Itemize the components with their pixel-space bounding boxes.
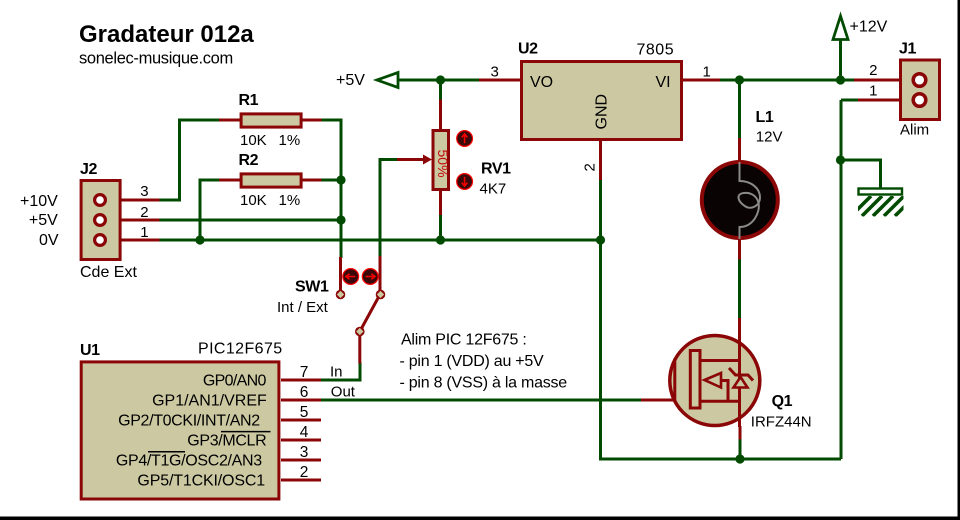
svg-text:VI: VI <box>656 74 671 91</box>
wire 0V rail J2 pin1 <box>159 239 602 242</box>
wire R2 right stub <box>300 179 322 182</box>
wire J2 pin2 stub <box>104 219 160 222</box>
svg-text:VO: VO <box>530 74 553 91</box>
wire SW1 left stub <box>339 257 342 291</box>
svg-text:R2: R2 <box>239 152 259 169</box>
RV1 wiper arrowhead <box>423 155 432 165</box>
svg-text:SW1: SW1 <box>295 279 329 296</box>
node Q1 source junction <box>735 454 744 463</box>
wire SW1 pole stub <box>358 334 361 364</box>
wire J2 pin3 to R1 left <box>159 120 221 200</box>
wire +12V arrow drop <box>839 39 842 80</box>
resistor R1 <box>239 92 302 149</box>
svg-text:GP4/T1G/OSC2/AN3: GP4/T1G/OSC2/AN3 <box>116 452 262 469</box>
svg-text:+5V: +5V <box>336 72 365 89</box>
node RV1 bottom junction <box>436 235 445 244</box>
wire R1 right stub <box>300 119 322 122</box>
svg-text:Cde Ext: Cde Ext <box>80 264 137 281</box>
wire Q1 drain stub <box>738 318 741 336</box>
wire RV1 bottom stub <box>439 189 442 215</box>
svg-text:0V: 0V <box>39 232 59 249</box>
node +5V junction <box>436 75 445 84</box>
wire +5V rail J2 pin2 <box>159 219 342 222</box>
svg-text:IRFZ44N: IRFZ44N <box>751 413 812 430</box>
wire L1 top stub <box>738 138 741 163</box>
svg-text:4: 4 <box>300 424 309 441</box>
wire U1 pin6 stub <box>281 399 321 402</box>
wire U1 pin5 stub <box>281 419 321 422</box>
resistor R2 <box>239 152 302 209</box>
svg-text:10K: 10K <box>240 192 267 209</box>
svg-text:Q1: Q1 <box>772 393 793 410</box>
svg-text:10K: 10K <box>240 132 267 149</box>
connector J2 <box>20 161 149 281</box>
svg-text:+5V: +5V <box>29 212 58 229</box>
svg-text:1%: 1% <box>279 132 301 149</box>
wire RV1 top stub <box>439 100 442 132</box>
svg-text:Gradateur 012a: Gradateur 012a <box>79 21 254 48</box>
svg-text:RV1: RV1 <box>481 161 511 178</box>
wire U1 pin3 stub <box>281 459 321 462</box>
svg-text:sonelec-musique.com: sonelec-musique.com <box>79 50 233 68</box>
svg-text:GND: GND <box>594 94 611 130</box>
potentiometer RV1 <box>433 131 511 198</box>
ic U1 <box>80 341 356 500</box>
svg-text:Int / Ext: Int / Ext <box>277 299 329 316</box>
wire R2 right link <box>320 179 341 182</box>
svg-text:6: 6 <box>300 384 309 401</box>
svg-text:4K7: 4K7 <box>480 180 507 197</box>
wire U2 pin2 lower <box>599 179 602 240</box>
wire Out net <box>320 399 642 402</box>
svg-text:50%: 50% <box>435 150 451 178</box>
svg-text:J1: J1 <box>899 41 916 58</box>
wire RV1 wiper riser <box>380 160 398 259</box>
ground <box>851 189 915 217</box>
wire R2 left stub <box>219 179 242 182</box>
switch SW1 <box>277 269 385 337</box>
wire Q1 source stub <box>739 426 742 440</box>
node R1-R2 junction <box>336 175 345 184</box>
lamp L1 <box>702 109 783 239</box>
wire RV1 wiper arrow shaft <box>397 158 425 161</box>
wire L1 bottom to Q1 drain <box>738 258 741 319</box>
wire U2 pin1 stub <box>681 79 720 82</box>
wire Q1 gate stub <box>641 399 676 402</box>
wire RV1 bottom <box>439 214 442 240</box>
svg-text:Out: Out <box>331 384 356 401</box>
wire right riser x841 <box>840 100 843 459</box>
wire R1 left stub <box>219 119 242 122</box>
svg-text:PIC12F675: PIC12F675 <box>198 341 283 358</box>
svg-text:U2: U2 <box>518 41 538 58</box>
title <box>79 21 254 48</box>
svg-text:Alim PIC 12F675 :: Alim PIC 12F675 : <box>401 332 527 349</box>
svg-text:12V: 12V <box>756 129 783 146</box>
wire +5V arrow line <box>398 79 481 82</box>
svg-text:GP2/T0CKI/INT/AN2: GP2/T0CKI/INT/AN2 <box>118 412 260 429</box>
svg-text:GP1/AN1/VREF: GP1/AN1/VREF <box>152 392 267 409</box>
svg-text:GP0/AN0: GP0/AN0 <box>203 372 267 389</box>
wire U1 pin7 stub <box>281 379 321 382</box>
node +5V rail junction <box>336 215 345 224</box>
svg-text:U1: U1 <box>80 342 100 359</box>
svg-text:3: 3 <box>300 444 309 461</box>
wire J1 pin1 link <box>841 99 860 102</box>
power +12V arrow <box>833 16 888 40</box>
border bottom <box>0 517 960 520</box>
svg-text:5: 5 <box>300 404 309 421</box>
svg-text:1: 1 <box>703 64 711 81</box>
svg-text:2: 2 <box>869 62 877 79</box>
wire ground branch <box>841 160 881 190</box>
note text <box>400 332 568 392</box>
regulator U2 <box>491 41 711 172</box>
svg-text:7: 7 <box>300 364 309 381</box>
wire J2 pin1 riser to R2 left <box>200 180 221 240</box>
node J2 pin1 junction <box>195 235 204 244</box>
wire SW1 blade <box>360 294 381 332</box>
wire J2 pin1 stub <box>104 239 160 242</box>
svg-text:3: 3 <box>491 64 499 81</box>
wire +12V rail y80 <box>719 79 856 82</box>
svg-text:2: 2 <box>582 163 599 171</box>
svg-text:In: In <box>330 363 343 380</box>
svg-text:- pin 1 (VDD) au +5V: - pin 1 (VDD) au +5V <box>400 353 545 370</box>
svg-text:+10V: +10V <box>20 193 58 210</box>
wire L1 bottom stub <box>738 238 741 260</box>
border right <box>958 0 960 520</box>
wire x600 riser and bottom rail <box>601 240 842 459</box>
svg-text:1%: 1% <box>279 192 301 209</box>
wire J1 pin1 stub <box>858 99 913 102</box>
svg-text:2: 2 <box>140 204 148 221</box>
svg-text:- pin 8 (VSS) à la masse: - pin 8 (VSS) à la masse <box>400 375 568 392</box>
svg-text:Alim: Alim <box>900 122 929 139</box>
node +12V junction <box>836 75 845 84</box>
svg-text:+12V: +12V <box>850 19 888 36</box>
power +5V arrow <box>336 72 398 89</box>
wire L1 top <box>738 80 741 139</box>
node L1 top junction <box>735 75 744 84</box>
node ground junction <box>836 155 845 164</box>
svg-text:GP5/T1CKI/OSC1: GP5/T1CKI/OSC1 <box>137 472 265 489</box>
wire Q1 source drop <box>739 438 742 459</box>
wire U2 pin2 stub <box>599 140 602 180</box>
wire J2 pin3 stub <box>104 199 160 202</box>
svg-text:7805: 7805 <box>637 42 675 59</box>
PIN STUBS (dark red) <box>104 80 913 480</box>
transistor Q1 <box>670 335 812 430</box>
node U2 GND junction <box>596 235 605 244</box>
svg-text:GP3/MCLR: GP3/MCLR <box>187 432 266 449</box>
connector J1 <box>869 41 939 139</box>
wire U1 pin4 stub <box>281 439 321 442</box>
wire In net to SW1 <box>320 362 360 380</box>
wire SW1 right stub <box>379 256 382 291</box>
wire U2 pin3 stub <box>479 79 522 82</box>
wire J1 pin2 stub <box>854 79 913 82</box>
wire U1 pin2 stub <box>281 479 321 482</box>
svg-text:1: 1 <box>140 224 148 241</box>
svg-text:R1: R1 <box>239 92 259 109</box>
wire RV1 top <box>439 80 442 101</box>
svg-text:2: 2 <box>300 464 309 481</box>
subtitle <box>79 50 233 68</box>
svg-text:L1: L1 <box>756 109 774 126</box>
svg-text:3: 3 <box>140 183 148 200</box>
wire R1 right to riser x341 <box>320 120 341 258</box>
svg-text:J2: J2 <box>80 161 97 178</box>
svg-text:1: 1 <box>869 83 877 100</box>
